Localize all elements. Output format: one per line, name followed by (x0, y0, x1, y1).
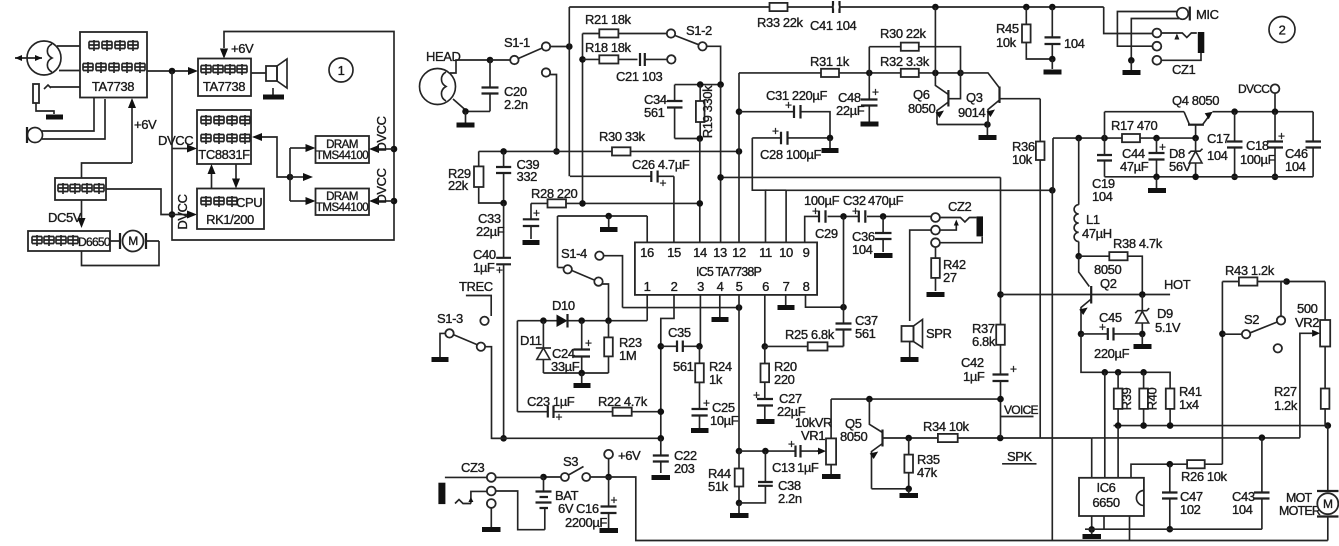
wire head top to C20 node (450, 60, 490, 73)
VR2 pot 500 (1295, 282, 1330, 438)
svg-text:MOTER: MOTER (1279, 504, 1321, 518)
svg-text:+: + (812, 204, 819, 218)
svg-text:R25 6.8k: R25 6.8k (785, 327, 835, 342)
ground (R44/C38) (738, 503, 740, 513)
svg-text:104: 104 (1285, 159, 1306, 174)
capacitor C18 100uF (1240, 108, 1285, 180)
pin5 row (S1-4 line) (623, 307, 740, 309)
svg-text:R38 4.7k: R38 4.7k (1113, 236, 1163, 251)
resistor R39 (vertical) (1114, 372, 1134, 425)
svg-text:2.2n: 2.2n (778, 491, 802, 506)
power box 电源电路 (55, 178, 106, 200)
svg-text:47µF: 47µF (1120, 159, 1149, 174)
svg-text:CZ1: CZ1 (1172, 62, 1196, 77)
VOICE line (831, 398, 1000, 400)
pin numbers bottom row (644, 279, 810, 294)
CZ2 sleeve to plug (940, 237, 982, 243)
svg-text:+: + (852, 204, 859, 218)
svg-text:C28 100µF: C28 100µF (760, 147, 821, 162)
wire S1-1 lower contact down to R30 line (550, 75, 557, 152)
svg-text:R45: R45 (996, 21, 1019, 36)
CZ3 lower contact to ground (490, 508, 492, 527)
ground (speaker) (272, 88, 274, 95)
ground (C16) (600, 528, 619, 533)
wire down to C40 (503, 203, 505, 258)
svg-text:SPR: SPR (926, 326, 952, 341)
power amp box 功率放大 TA7738 (198, 59, 251, 97)
wire CZ3 top to S3 (496, 476, 544, 478)
svg-text:22µF: 22µF (476, 224, 505, 239)
resistor R34 10k (923, 419, 970, 442)
svg-text:332: 332 (517, 169, 538, 184)
IC6 bottom pins to ground (1092, 516, 1104, 529)
capacitor C27 22uF (753, 388, 806, 419)
svg-text:561: 561 (644, 105, 665, 120)
ground (IC6) (1091, 529, 1093, 534)
svg-text:S2: S2 (1244, 312, 1259, 327)
capacitor C28 100uF (752, 124, 833, 162)
dram right feeds from border (391, 146, 398, 153)
svg-text:+: + (556, 410, 563, 424)
dsp right wire to dram bus (260, 137, 290, 177)
C37 bottom to R25 (828, 330, 844, 347)
SPK label (1002, 449, 1036, 464)
node C29/C32 to pin8 line (840, 213, 847, 220)
row2 C34/R19 bottom to pin14 column (675, 138, 700, 140)
svg-text:6.8k: 6.8k (972, 334, 996, 349)
top rail (1105, 111, 1314, 113)
svg-text:CPU: CPU (236, 195, 262, 210)
transistor Q5 8050 (840, 399, 883, 489)
C13 row from pin5 (736, 448, 743, 455)
IC6 top right pin to R26 row (1131, 464, 1187, 478)
zener D9 5.1V (1135, 295, 1181, 336)
ground (R42) (927, 292, 945, 297)
resistor R37 6.8k (vertical) (972, 321, 1005, 375)
ground (C25) (691, 428, 709, 433)
MIC symbol (1177, 7, 1219, 23)
speed control box 稳速电路D6650 (28, 231, 111, 251)
svg-text:TMS44100: TMS44100 (316, 202, 368, 214)
dram bus vertical (289, 148, 291, 201)
svg-text:DVCC: DVCC (175, 194, 190, 229)
svg-text:C35: C35 (668, 325, 691, 340)
svg-text:8050: 8050 (840, 429, 867, 444)
resistor R17 470 (1111, 118, 1158, 142)
resistor R32 3.3k (880, 54, 964, 77)
C28 left staircase to pin11 (752, 138, 765, 243)
resistor R22 4.7k (598, 394, 664, 416)
svg-text:470µF: 470µF (868, 193, 904, 208)
capacitor C36 104 (852, 216, 892, 257)
svg-text:+6V: +6V (231, 41, 254, 56)
svg-text:IC6: IC6 (1096, 480, 1115, 495)
capacitor 104 (R45) (1045, 7, 1085, 62)
svg-text:+: + (611, 493, 618, 507)
row C34/R19 (675, 84, 721, 86)
resistor R23 1M (vertical) (604, 321, 642, 373)
svg-text:+: + (660, 176, 667, 190)
svg-text:D9: D9 (1157, 306, 1173, 321)
capacitor C39 332 (496, 151, 539, 203)
svg-text:+: + (703, 396, 710, 410)
resistor R40 (vertical) (1139, 372, 1159, 425)
ground (Q6/Q3) (979, 135, 997, 140)
R43 left column down to R26 (1221, 282, 1223, 465)
ground (jack) (46, 115, 63, 120)
capacitor C45 220uF (1078, 310, 1146, 361)
svg-text:DVCC: DVCC (374, 116, 389, 151)
pin13 column (S1-2 net) (720, 85, 722, 243)
mic jack symbol (33, 84, 80, 114)
capacitor C35 561 (661, 325, 703, 374)
svg-text:R21 18k: R21 18k (585, 12, 632, 27)
svg-text:1µF: 1µF (473, 260, 495, 275)
pin15 column (673, 176, 675, 242)
resistor R42 27 (vertical) (931, 247, 966, 291)
svg-text:27: 27 (943, 270, 957, 285)
ground (C24 row) (581, 373, 583, 383)
left column x1053 down (1052, 138, 1054, 190)
CZ1 plug bar (1161, 32, 1204, 53)
S1-4 net: contact up to ground/pin16 row (557, 216, 559, 268)
mic symbol (27, 127, 43, 143)
wire S3 node to bottom bus (609, 477, 1328, 541)
svg-text:MOT: MOT (1286, 491, 1313, 505)
arrow into dsp (172, 148, 188, 150)
svg-text:220: 220 (774, 372, 795, 387)
pin13 line to R37 column (721, 176, 1001, 178)
DRAM2 box TMS44100 (316, 189, 370, 216)
pin6 node (762, 343, 769, 350)
CZ1 jack (1153, 29, 1196, 77)
motor symbol M (110, 231, 159, 252)
pin 7 stub to ground (785, 295, 787, 305)
svg-text:M: M (128, 234, 138, 248)
wire C20 bottom / head bottom (453, 99, 490, 111)
motor loop wire (82, 241, 160, 266)
svg-text:C17: C17 (1207, 131, 1230, 146)
svg-text:561: 561 (673, 359, 694, 374)
svg-text:33µF: 33µF (551, 359, 580, 374)
svg-text:MIC: MIC (1196, 7, 1219, 22)
svg-text:16: 16 (640, 245, 654, 260)
MIC top wire to CZ1 middle (1117, 12, 1176, 47)
transistor Q6 8050 (908, 73, 961, 125)
capacitor C48 22uF (836, 70, 879, 122)
svg-text:14: 14 (693, 245, 707, 260)
svg-text:Q6: Q6 (913, 87, 930, 102)
resistor R19 330k (vertical) (696, 85, 715, 139)
power box top wire to +6V column (82, 163, 133, 178)
+6V terminal (604, 448, 641, 477)
pin 1 stub to D10 line (646, 295, 648, 321)
svg-text:15: 15 (667, 245, 681, 260)
switch S1-1 (504, 35, 550, 77)
CZ3 middle contact to battery minus (496, 491, 545, 530)
resistor R27 1.2k (vertical) (1274, 384, 1329, 426)
svg-text:1x4: 1x4 (1179, 397, 1199, 412)
wire preamp out junction (147, 67, 198, 75)
bus x570: top line corner down to C26 (568, 7, 570, 176)
svg-text:+: + (1010, 362, 1017, 376)
svg-text:47k: 47k (917, 465, 938, 480)
resistor R21 18k (583, 12, 668, 38)
arrow into cpu (172, 214, 188, 216)
svg-text:+: + (1159, 140, 1166, 154)
switch S1-4 (558, 246, 604, 286)
svg-text:22µF: 22µF (836, 103, 865, 118)
preamp box 录放前置均衡放大器 TA7738 (80, 32, 147, 98)
MIC bottom wire to ground column (1131, 19, 1179, 61)
svg-text:104: 104 (1064, 36, 1085, 51)
DC5V arrow (81, 200, 83, 218)
IC5 body (635, 242, 817, 295)
SPK row (Q5 base) (883, 437, 1092, 439)
svg-text:47µH: 47µH (1082, 226, 1112, 241)
svg-text:4: 4 (717, 279, 724, 294)
svg-text:1µF: 1µF (963, 369, 985, 384)
wire S1-2 down to C34/R19 row (707, 46, 721, 84)
svg-text:6: 6 (762, 279, 769, 294)
svg-text:+: + (533, 206, 540, 220)
svg-text:DVCC: DVCC (374, 168, 389, 203)
svg-text:Q4 8050: Q4 8050 (1172, 93, 1219, 108)
CZ1 sleeve wire to plug (1161, 53, 1201, 60)
svg-text:R19 330k: R19 330k (700, 85, 715, 138)
S1-3 left contact to ground (440, 333, 445, 357)
svg-text:12: 12 (732, 245, 746, 260)
HOT node (1139, 291, 1146, 298)
svg-text:C42: C42 (961, 355, 984, 370)
svg-text:R27: R27 (1274, 384, 1297, 399)
ground (C22) (652, 475, 671, 480)
svg-text:1: 1 (644, 279, 651, 294)
bottom row D11/C24/R23 (543, 372, 608, 374)
resistor R30 22k (second) (869, 26, 960, 73)
svg-text:Q2: Q2 (1100, 276, 1117, 291)
svg-text:3: 3 (697, 279, 704, 294)
svg-text:56V: 56V (1169, 159, 1192, 174)
+6V arrow into power amp (220, 49, 228, 59)
R31 1k line (739, 54, 901, 77)
R37 column from pin13 line (1000, 177, 1002, 324)
svg-text:1M: 1M (619, 348, 636, 363)
svg-text:104: 104 (852, 242, 873, 257)
IC6 bottom right pin to bus (1129, 516, 1131, 541)
ground (C33) (523, 240, 540, 245)
svg-text:L1: L1 (1086, 212, 1100, 227)
svg-text:2: 2 (671, 279, 678, 294)
svg-text:9: 9 (803, 245, 810, 260)
ground (VR1) (822, 474, 841, 479)
capacitor C31 220uF (739, 88, 830, 138)
C35 node (658, 343, 665, 350)
svg-text:DC5V: DC5V (48, 210, 82, 225)
svg-text:+: + (585, 336, 592, 350)
svg-text:C18: C18 (1246, 138, 1269, 153)
transistor Q2 8050 (1079, 256, 1122, 334)
svg-text:8: 8 (803, 279, 810, 294)
ground (D9/C45) (1141, 334, 1143, 344)
SPK row into IC6 (1091, 438, 1093, 478)
svg-text:+: + (785, 98, 792, 112)
pin9 riser and C29/C32 line (805, 216, 931, 242)
svg-text:C31 220µF: C31 220µF (766, 88, 827, 103)
svg-text:1: 1 (338, 63, 345, 78)
row to pin16 with ground tap (558, 216, 648, 242)
motor M symbol (1317, 426, 1339, 541)
svg-text:104: 104 (1207, 148, 1228, 163)
svg-text:R40: R40 (1145, 388, 1160, 411)
VR1 pot 10kVR (795, 399, 836, 474)
resistor R43 1.2k (1222, 263, 1325, 286)
svg-text:203: 203 (674, 461, 695, 476)
svg-text:VOICE: VOICE (1004, 403, 1039, 417)
CZ2 middle to SPR column (910, 230, 931, 321)
ground (C27) (757, 419, 775, 424)
Q6/Q3 emitter row to ground (937, 124, 987, 126)
svg-text:8050: 8050 (908, 101, 935, 116)
record head symbol (15, 41, 61, 75)
svg-text:9014: 9014 (958, 105, 985, 120)
transistor Q4 8050 (1172, 93, 1219, 138)
svg-text:1k: 1k (709, 372, 723, 387)
VOICE label (1001, 403, 1039, 417)
R21 branch vertical (582, 34, 584, 204)
switch S2 (1222, 282, 1286, 353)
node R29/C39/C40 (500, 200, 507, 207)
node head/C20/S1-1 (487, 57, 494, 64)
C47/C43 bottom row (1085, 528, 1262, 530)
svg-text:1µF: 1µF (797, 460, 819, 475)
capacitor C32 470uF (843, 193, 904, 223)
svg-text:M: M (1323, 497, 1333, 511)
capacitor C42 1uF (961, 355, 1017, 438)
svg-text:+: + (1099, 320, 1106, 334)
svg-text:R30 22k: R30 22k (880, 26, 927, 41)
Q2 base row from R37 column (1001, 294, 1171, 296)
wire head to preamp box (57, 46, 80, 71)
capacitor C34 561 (644, 85, 683, 139)
svg-text:104: 104 (1232, 502, 1253, 517)
svg-text:+6V: +6V (618, 448, 641, 463)
pin 8 stub to C37 node (806, 295, 844, 307)
svg-text:TA7738: TA7738 (203, 79, 245, 94)
svg-text:C23 1µF: C23 1µF (527, 394, 575, 409)
zener D11 (520, 321, 551, 373)
diode D10 (552, 298, 575, 328)
svg-text:5: 5 (736, 279, 743, 294)
switch S3 (544, 454, 609, 481)
speaker symbol (251, 59, 287, 88)
svg-text:C13: C13 (772, 460, 795, 475)
IC6 riser (middle pin) (1104, 372, 1106, 478)
resistor R38 4.7k (1079, 236, 1163, 295)
CZ3 plug bar (438, 477, 487, 504)
svg-text:6650: 6650 (1092, 495, 1119, 510)
S3 line node (605, 474, 612, 481)
svg-text:S1-1: S1-1 (504, 35, 530, 50)
resistor R36 10k (vertical) (1012, 139, 1045, 167)
pin 5 stub down (738, 295, 740, 451)
R28 220 line (531, 186, 703, 208)
capacitor C21 103 (616, 53, 667, 84)
inductor L1 47uH (1074, 138, 1112, 256)
capacitor C16 2200uF (565, 477, 618, 530)
svg-text:TA7738: TA7738 (92, 79, 134, 94)
regulator bottom rail (1105, 176, 1314, 178)
svg-text:VR2: VR2 (1295, 315, 1319, 330)
svg-text:RK1/200: RK1/200 (206, 212, 254, 227)
svg-text:S3: S3 (563, 454, 578, 469)
svg-text:D6650: D6650 (78, 235, 111, 249)
svg-text:R43 1.2k: R43 1.2k (1225, 263, 1275, 278)
R30 33k line (479, 129, 743, 156)
DVCC bus down left (172, 32, 394, 241)
CZ3 jack (461, 460, 496, 508)
svg-text:102: 102 (1180, 502, 1201, 517)
capacitor C44 47uF (1120, 138, 1166, 177)
capacitor C29 100uF (804, 193, 840, 241)
circle 2 (1269, 17, 1295, 43)
ground (C36) (874, 253, 893, 258)
resistor R25 6.8k (765, 327, 844, 351)
dsp box 数字语音处理电路 TC8831F (197, 110, 251, 164)
svg-text:+6V: +6V (134, 117, 157, 132)
svg-text:+: + (496, 263, 503, 277)
pin 2 stub jog to C35 column (661, 295, 674, 438)
svg-text:R32 3.3k: R32 3.3k (880, 54, 930, 69)
resistor R26 10k (1167, 460, 1228, 484)
svg-text:S1-3: S1-3 (437, 311, 463, 326)
svg-text:R18 18k: R18 18k (585, 40, 632, 55)
left branch of D10 loop down to C23 (516, 321, 518, 412)
svg-text:C16: C16 (576, 501, 599, 516)
capacitor C38 2.2n (739, 451, 802, 506)
ground (C44) (1156, 177, 1158, 188)
ground (C48) (861, 122, 879, 127)
pin12 column top (R31 corner down) (738, 73, 740, 243)
capacitor C23 1uF (517, 394, 612, 424)
svg-text:D10: D10 (552, 298, 575, 313)
capacitor C20 (482, 60, 528, 112)
playback head symbol (420, 69, 456, 105)
power box right wire to dvcc bus (106, 189, 172, 215)
capacitor C13 1uF (772, 437, 819, 475)
+6V bus line (left bottom) (492, 437, 661, 439)
CZ3 switch tick (455, 491, 487, 503)
svg-text:R31 1k: R31 1k (810, 54, 850, 69)
resistor R45 10k (vertical) (996, 7, 1052, 59)
svg-text:500: 500 (1297, 301, 1318, 316)
resistor R44 51k (vertical) (708, 451, 743, 506)
svg-text:DVCC: DVCC (1238, 82, 1270, 96)
pin 6 stub (764, 295, 766, 347)
IC6 6650 box (1079, 478, 1144, 516)
R17 line (1053, 137, 1196, 139)
svg-text:7: 7 (783, 279, 790, 294)
svg-text:D11: D11 (520, 333, 542, 348)
svg-text:8050: 8050 (1094, 262, 1121, 277)
resistor R33 22k (on top bus) (757, 3, 804, 30)
svg-text:6V: 6V (558, 501, 574, 516)
CZ2 detect arrow (940, 224, 956, 230)
resistor R20 220 (vertical) (761, 346, 797, 399)
svg-text:S1-4: S1-4 (561, 246, 587, 261)
svg-text:+: + (788, 437, 795, 451)
svg-text:CZ3: CZ3 (461, 460, 485, 475)
